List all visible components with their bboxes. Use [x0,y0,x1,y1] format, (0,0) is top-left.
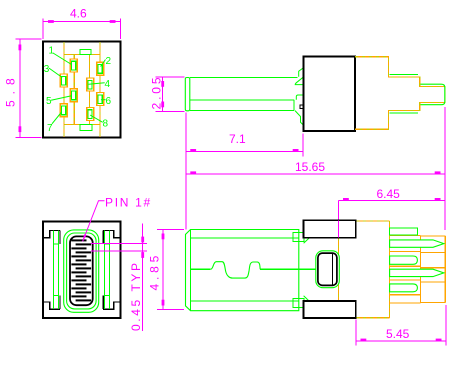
latch bump top [293,233,304,242]
corner step top-left [44,230,61,237]
terminal pin 1 [390,228,418,235]
right green channel [105,230,110,309]
crimp cutout wave [211,262,261,278]
corner step top-right [103,230,120,237]
svg-text:7: 7 [47,123,53,134]
pad 7 [60,104,67,117]
barrel lines [190,78,298,111]
pad 8 [87,108,94,121]
svg-text:PIN 1#: PIN 1# [105,196,152,210]
svg-text:4: 4 [105,79,111,90]
left green channel [54,230,59,309]
terminal pin 3 [390,256,418,264]
pin number leaders [49,53,106,124]
svg-text:0.45 TYP: 0.45 TYP [129,260,143,331]
outer green shroud [64,230,99,312]
latch diagonal bottom [304,296,310,301]
barrel outline [186,230,299,311]
window inner line [332,254,334,285]
footprint orange traces [64,42,100,137]
pad 6 [97,93,104,106]
pad 3 [60,74,67,87]
shell body [304,57,356,132]
svg-text:6.45: 6.45 [377,187,401,201]
terminal pin 2 [390,240,444,247]
window black outline [318,253,337,285]
svg-text:4.85: 4.85 [148,252,162,291]
barrel latch bottom [294,95,304,125]
top slot [80,50,91,55]
pad 2 [97,62,104,75]
terminal pin 4 [390,269,444,276]
terminal pin 5 [390,284,418,292]
barrel cap line [190,230,192,311]
barrel mid line right [260,268,316,270]
svg-text:7.1: 7.1 [229,132,246,146]
svg-text:8: 8 [103,119,109,130]
footprint outline [43,42,121,138]
svg-text:3: 3 [44,64,50,75]
inner green shroud [67,233,97,309]
footprint yellow dash overlay [64,42,100,137]
pad 4 [87,78,94,91]
pad 1 [70,59,77,72]
shell tab [300,105,304,108]
barrel inner top line [191,237,299,239]
svg-text:2.05: 2.05 [149,75,163,110]
pin numbers [44,46,112,135]
svg-text:5: 5 [46,96,52,107]
svg-text:5.8: 5.8 [4,72,18,107]
latch diagonal top [304,238,310,243]
tail stepped contour [355,57,445,130]
svg-text:6: 6 [106,96,112,107]
svg-text:4.6: 4.6 [70,7,87,21]
latch bump bottom [293,299,304,308]
shell tab bottom [303,301,355,318]
corner step bottom-left [44,302,61,309]
barrel mid line left [191,268,211,270]
bottom slot [80,125,92,131]
6.45 extension over tab [338,220,340,237]
face outline [43,222,121,319]
tail green contact edges [390,75,445,113]
barrel latch top [295,68,303,85]
contact block right [420,236,445,302]
corner step bottom-right [103,302,120,309]
moulded body [356,221,390,318]
black channel edges [60,230,103,309]
barrel cap [185,78,190,111]
contact ladder [71,239,91,301]
contact block middle [390,236,421,304]
svg-text:1: 1 [49,46,55,57]
window green outline [316,251,340,288]
svg-text:15.65: 15.65 [295,160,325,174]
svg-text:5.45: 5.45 [386,327,410,341]
body hidden edge [338,238,340,301]
svg-text:2: 2 [106,56,112,67]
pad 5 [70,89,77,102]
shell tab top [303,220,355,238]
contact tongue outline [70,236,93,305]
barrel inner bottom line [191,300,299,302]
